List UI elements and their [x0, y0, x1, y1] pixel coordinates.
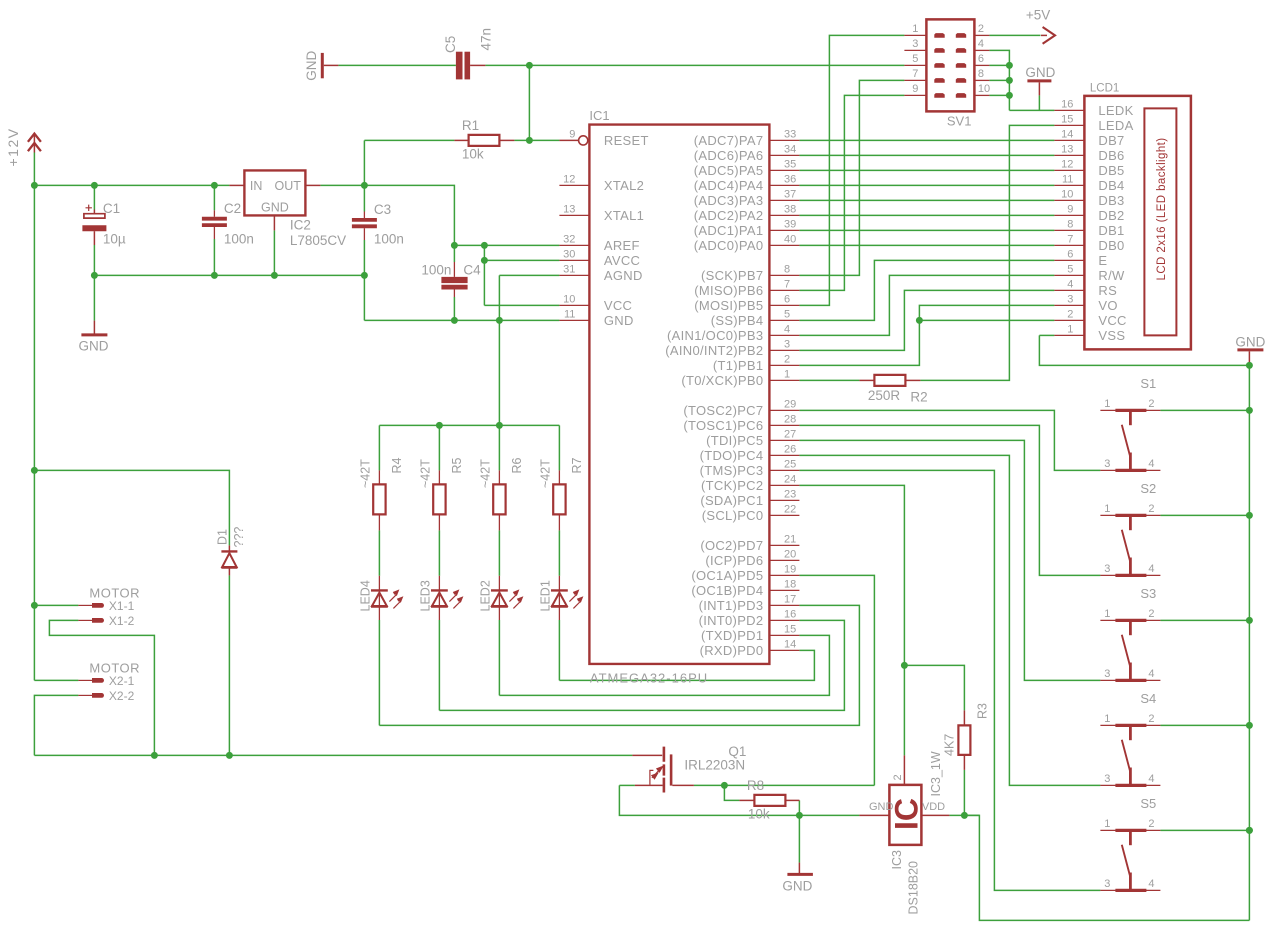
svg-text:???: ??? — [232, 527, 246, 548]
svg-text:8: 8 — [784, 264, 790, 276]
svg-text:22: 22 — [784, 504, 796, 516]
svg-text:GND: GND — [79, 339, 109, 354]
svg-text:20: 20 — [784, 549, 796, 561]
svg-text:MOTOR: MOTOR — [89, 586, 140, 601]
svg-text:2: 2 — [978, 23, 984, 35]
svg-text:27: 27 — [784, 429, 796, 441]
svg-text:14: 14 — [1061, 129, 1073, 141]
svg-text:VO: VO — [1098, 298, 1117, 313]
svg-text:250R: 250R — [868, 388, 901, 403]
svg-text:11: 11 — [564, 309, 575, 321]
svg-text:XTAL2: XTAL2 — [604, 178, 644, 193]
svg-text:LED2: LED2 — [479, 580, 493, 611]
svg-text:DB3: DB3 — [1098, 193, 1124, 208]
svg-text:(ADC6)PA6: (ADC6)PA6 — [694, 148, 764, 163]
svg-text:39: 39 — [784, 219, 796, 231]
svg-text:12: 12 — [1061, 159, 1073, 171]
svg-text:C5: C5 — [443, 36, 458, 53]
svg-text:19: 19 — [784, 564, 796, 576]
svg-text:2: 2 — [1067, 309, 1073, 321]
svg-text:16: 16 — [784, 609, 796, 621]
svg-text:1: 1 — [912, 23, 918, 35]
svg-text:4: 4 — [1148, 878, 1154, 890]
svg-text:2: 2 — [1148, 818, 1154, 830]
svg-text:R3: R3 — [975, 703, 989, 719]
svg-text:DB2: DB2 — [1098, 208, 1124, 223]
svg-text:IC: IC — [889, 798, 925, 830]
svg-text:8: 8 — [1067, 219, 1073, 231]
svg-text:15: 15 — [784, 624, 796, 636]
svg-text:35: 35 — [784, 159, 796, 171]
svg-text:LED1: LED1 — [539, 580, 553, 611]
svg-text:1: 1 — [784, 369, 790, 381]
svg-text:2: 2 — [1148, 503, 1154, 515]
svg-text:AVCC: AVCC — [604, 253, 640, 268]
svg-text:100n: 100n — [224, 232, 254, 247]
svg-text:(RXD)PD0: (RXD)PD0 — [700, 643, 764, 658]
svg-text:9: 9 — [912, 83, 918, 95]
svg-text:C1: C1 — [103, 201, 120, 216]
svg-text:2: 2 — [784, 354, 790, 366]
svg-text:DB0: DB0 — [1098, 238, 1124, 253]
svg-text:GND: GND — [604, 313, 634, 328]
svg-text:S1: S1 — [1140, 376, 1156, 391]
svg-text:(AIN0/INT2)PB2: (AIN0/INT2)PB2 — [665, 343, 763, 358]
svg-text:(TOSC1)PC6: (TOSC1)PC6 — [683, 418, 763, 433]
svg-text:IN: IN — [250, 179, 263, 193]
svg-text:2: 2 — [1148, 398, 1154, 410]
svg-text:5: 5 — [784, 309, 790, 321]
svg-text:4: 4 — [978, 38, 984, 50]
svg-text:3: 3 — [1104, 563, 1110, 575]
svg-text:OUT: OUT — [275, 179, 302, 193]
svg-text:(ADC3)PA3: (ADC3)PA3 — [694, 193, 764, 208]
svg-text:L7805CV: L7805CV — [290, 233, 346, 248]
svg-text:26: 26 — [784, 444, 796, 456]
svg-text:(TCK)PC2: (TCK)PC2 — [701, 478, 763, 493]
svg-text:40: 40 — [784, 234, 796, 246]
svg-text:8: 8 — [978, 68, 984, 80]
svg-text:(INT0)PD2: (INT0)PD2 — [699, 613, 764, 628]
svg-text:(OC1B)PD4: (OC1B)PD4 — [691, 583, 763, 598]
svg-text:4: 4 — [1148, 563, 1154, 575]
svg-text:47n: 47n — [479, 28, 494, 51]
svg-text:AREF: AREF — [604, 238, 640, 253]
svg-text:IC2: IC2 — [290, 218, 311, 233]
svg-text:3: 3 — [1104, 458, 1110, 470]
svg-text:100n: 100n — [421, 263, 451, 278]
svg-text:13: 13 — [1061, 144, 1073, 156]
svg-text:E: E — [1098, 253, 1107, 268]
svg-text:(T1)PB1: (T1)PB1 — [713, 358, 764, 373]
svg-text:LCD 2x16 (LED backlight): LCD 2x16 (LED backlight) — [1156, 137, 1168, 280]
svg-text:(ICP)PD6: (ICP)PD6 — [705, 553, 763, 568]
svg-text:10: 10 — [978, 83, 990, 95]
svg-text:24: 24 — [784, 474, 796, 486]
svg-text:(T0/XCK)PB0: (T0/XCK)PB0 — [681, 373, 763, 388]
svg-text:LEDA: LEDA — [1098, 118, 1133, 133]
svg-text:XTAL1: XTAL1 — [604, 208, 644, 223]
svg-text:RESET: RESET — [604, 133, 649, 148]
svg-text:(AIN1/OC0)PB3: (AIN1/OC0)PB3 — [667, 328, 763, 343]
svg-text:1: 1 — [1067, 324, 1073, 336]
svg-text:LEDK: LEDK — [1098, 103, 1133, 118]
svg-text:4: 4 — [1148, 773, 1154, 785]
svg-text:(ADC5)PA5: (ADC5)PA5 — [694, 163, 764, 178]
svg-text:GND: GND — [261, 201, 289, 215]
svg-text:100n: 100n — [374, 232, 404, 247]
svg-text:~42T: ~42T — [479, 459, 493, 488]
svg-text:R/W: R/W — [1098, 268, 1125, 283]
svg-text:2: 2 — [892, 774, 904, 780]
svg-text:GND: GND — [1235, 335, 1265, 350]
svg-text:S4: S4 — [1140, 691, 1156, 706]
svg-text:25: 25 — [784, 459, 796, 471]
svg-text:5: 5 — [1067, 264, 1073, 276]
svg-text:17: 17 — [784, 594, 796, 606]
svg-text:1: 1 — [1104, 503, 1110, 515]
svg-text:21: 21 — [784, 534, 796, 546]
svg-text:(SDA)PC1: (SDA)PC1 — [700, 493, 763, 508]
svg-text:X1-1: X1-1 — [109, 599, 135, 613]
svg-text:12: 12 — [563, 174, 575, 186]
svg-text:(MISO)PB6: (MISO)PB6 — [694, 283, 763, 298]
svg-text:3: 3 — [1067, 294, 1073, 306]
svg-text:3: 3 — [1104, 878, 1110, 890]
svg-text:32: 32 — [563, 234, 575, 246]
svg-text:R5: R5 — [450, 457, 464, 473]
svg-text:GND: GND — [1025, 65, 1055, 80]
svg-text:R8: R8 — [747, 778, 764, 793]
svg-text:13: 13 — [563, 204, 575, 216]
svg-text:GND: GND — [782, 879, 812, 894]
svg-text:~42T: ~42T — [359, 459, 373, 488]
svg-text:LED3: LED3 — [419, 580, 433, 611]
svg-text:IC1: IC1 — [589, 108, 609, 123]
svg-text:C3: C3 — [374, 202, 391, 217]
svg-text:GND: GND — [304, 51, 319, 81]
svg-text:LCD1: LCD1 — [1090, 83, 1119, 95]
svg-text:(TDO)PC4: (TDO)PC4 — [700, 448, 764, 463]
svg-text:S3: S3 — [1140, 586, 1156, 601]
svg-text:7: 7 — [784, 279, 790, 291]
svg-text:4K7: 4K7 — [942, 734, 956, 756]
svg-text:DB5: DB5 — [1098, 163, 1124, 178]
svg-text:LED4: LED4 — [359, 580, 373, 611]
svg-text:34: 34 — [784, 144, 796, 156]
svg-text:DB7: DB7 — [1098, 133, 1124, 148]
svg-text:VCC: VCC — [604, 298, 632, 313]
svg-text:10k: 10k — [462, 147, 484, 162]
svg-text:R1: R1 — [462, 118, 479, 133]
svg-text:GND: GND — [869, 801, 894, 813]
svg-text:D1: D1 — [216, 529, 230, 545]
svg-text:(ADC4)PA4: (ADC4)PA4 — [694, 178, 764, 193]
svg-text:10: 10 — [563, 294, 575, 306]
svg-text:23: 23 — [784, 489, 796, 501]
svg-text:(TMS)PC3: (TMS)PC3 — [700, 463, 764, 478]
svg-text:VDD: VDD — [922, 801, 945, 813]
svg-text:2: 2 — [1148, 608, 1154, 620]
svg-text:DS18B20: DS18B20 — [906, 861, 920, 915]
svg-text:(TXD)PD1: (TXD)PD1 — [701, 628, 763, 643]
svg-text:+12V: +12V — [5, 127, 21, 166]
svg-text:C2: C2 — [224, 201, 241, 216]
svg-text:3: 3 — [912, 38, 918, 50]
svg-text:C4: C4 — [463, 263, 481, 278]
svg-text:RS: RS — [1098, 283, 1117, 298]
svg-text:4: 4 — [784, 324, 790, 336]
svg-text:MOTOR: MOTOR — [89, 661, 140, 676]
svg-text:30: 30 — [563, 249, 575, 261]
svg-text:1: 1 — [1104, 818, 1110, 830]
svg-text:VSS: VSS — [1098, 328, 1125, 343]
svg-text:3: 3 — [1104, 773, 1110, 785]
svg-text:2: 2 — [1148, 713, 1154, 725]
svg-text:36: 36 — [784, 174, 796, 186]
svg-text:IRL2203N: IRL2203N — [684, 758, 745, 773]
svg-text:10k: 10k — [748, 807, 770, 822]
svg-text:10: 10 — [1061, 189, 1073, 201]
svg-text:29: 29 — [784, 399, 796, 411]
svg-text:4: 4 — [1148, 458, 1154, 470]
svg-text:S2: S2 — [1140, 481, 1156, 496]
svg-text:3: 3 — [784, 339, 790, 351]
svg-text:3: 3 — [1104, 668, 1110, 680]
svg-text:ATMEGA32-16PU: ATMEGA32-16PU — [590, 671, 708, 686]
svg-text:1: 1 — [1104, 398, 1110, 410]
svg-text:6: 6 — [784, 294, 790, 306]
svg-text:6: 6 — [978, 53, 984, 65]
svg-text:18: 18 — [784, 579, 796, 591]
svg-text:14: 14 — [784, 639, 796, 651]
svg-text:DB4: DB4 — [1098, 178, 1124, 193]
svg-text:(OC1A)PD5: (OC1A)PD5 — [691, 568, 763, 583]
svg-text:X1-2: X1-2 — [109, 614, 135, 628]
svg-text:AGND: AGND — [604, 268, 643, 283]
svg-text:(ADC0)PA0: (ADC0)PA0 — [694, 238, 764, 253]
svg-text:31: 31 — [563, 264, 575, 276]
svg-text:10µ: 10µ — [103, 232, 126, 247]
svg-text:(TDI)PC5: (TDI)PC5 — [706, 433, 763, 448]
svg-text:7: 7 — [1067, 234, 1073, 246]
svg-text:4: 4 — [1148, 668, 1154, 680]
svg-text:9: 9 — [569, 129, 575, 141]
svg-text:(ADC1)PA1: (ADC1)PA1 — [694, 223, 764, 238]
svg-text:(MOSI)PB5: (MOSI)PB5 — [694, 298, 763, 313]
svg-text:4: 4 — [1067, 279, 1073, 291]
svg-text:(INT1)PD3: (INT1)PD3 — [699, 598, 764, 613]
svg-text:+5V: +5V — [1026, 8, 1050, 23]
svg-text:X2-2: X2-2 — [109, 689, 135, 703]
svg-text:R6: R6 — [510, 457, 524, 473]
svg-text:VCC: VCC — [1098, 313, 1126, 328]
svg-text:R4: R4 — [390, 457, 404, 473]
svg-text:R2: R2 — [910, 390, 927, 405]
svg-text:6: 6 — [1067, 249, 1073, 261]
svg-text:X2-1: X2-1 — [109, 674, 135, 688]
svg-text:15: 15 — [1061, 114, 1073, 126]
svg-text:(TOSC2)PC7: (TOSC2)PC7 — [683, 403, 763, 418]
svg-text:DB6: DB6 — [1098, 148, 1124, 163]
svg-text:S5: S5 — [1140, 796, 1156, 811]
svg-text:5: 5 — [912, 53, 918, 65]
svg-text:(ADC2)PA2: (ADC2)PA2 — [694, 208, 764, 223]
svg-text:38: 38 — [784, 204, 796, 216]
svg-text:(OC2)PD7: (OC2)PD7 — [700, 538, 763, 553]
svg-text:16: 16 — [1061, 99, 1073, 111]
svg-text:1: 1 — [1104, 608, 1110, 620]
svg-text:1: 1 — [1104, 713, 1110, 725]
svg-text:33: 33 — [784, 129, 796, 141]
svg-text:IC3: IC3 — [890, 850, 904, 870]
svg-text:SV1: SV1 — [947, 114, 972, 129]
svg-text:~42T: ~42T — [539, 459, 553, 488]
svg-text:(SCL)PC0: (SCL)PC0 — [702, 508, 764, 523]
svg-text:R7: R7 — [570, 457, 584, 473]
svg-text:(SCK)PB7: (SCK)PB7 — [701, 268, 763, 283]
svg-text:(ADC7)PA7: (ADC7)PA7 — [694, 133, 764, 148]
svg-text:DB1: DB1 — [1098, 223, 1124, 238]
svg-text:(SS)PB4: (SS)PB4 — [711, 313, 764, 328]
svg-text:7: 7 — [912, 68, 918, 80]
svg-text:28: 28 — [784, 414, 796, 426]
svg-text:9: 9 — [1067, 204, 1073, 216]
svg-text:11: 11 — [1062, 174, 1073, 186]
svg-text:~42T: ~42T — [419, 459, 433, 488]
svg-text:37: 37 — [784, 189, 796, 201]
svg-text:IC3_1W: IC3_1W — [929, 751, 943, 796]
